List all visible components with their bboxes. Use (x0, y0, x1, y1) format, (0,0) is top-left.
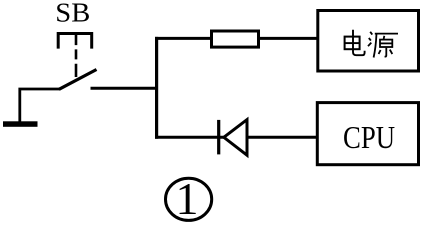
svg-text:SB: SB (55, 0, 90, 28)
svg-text:1: 1 (176, 173, 199, 223)
svg-text:CPU: CPU (343, 120, 395, 155)
